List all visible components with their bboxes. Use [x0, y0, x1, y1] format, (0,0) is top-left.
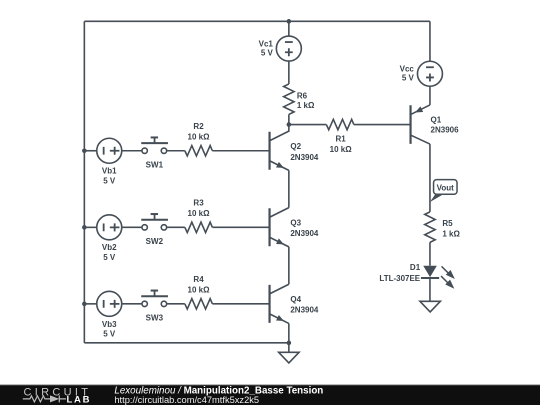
svg-text:2N3904: 2N3904: [290, 229, 319, 238]
svg-text:5 V: 5 V: [103, 330, 116, 339]
wire R6 junction to R1: [289, 124, 327, 126]
transistor Q3 (NPN 2N3904): [270, 208, 319, 247]
transistor Q4 (NPN 2N3904): [270, 284, 319, 323]
svg-text:R3: R3: [193, 198, 204, 207]
voltage source Vb1: [84, 138, 121, 185]
resistor R5: [425, 212, 461, 243]
svg-text:Vb3: Vb3: [102, 320, 117, 329]
node junction left bus row3: [82, 302, 87, 307]
svg-text:2N3906: 2N3906: [431, 126, 460, 135]
wire Q4 emitter to bottom bus: [288, 323, 290, 342]
svg-text:http://circuitlab.com/c47mtfk5: http://circuitlab.com/c47mtfk5xz2k5: [114, 395, 259, 405]
ground under D1: [420, 301, 440, 312]
resistor R1: [326, 119, 353, 154]
LED D1 (LTL-307EE): [379, 263, 454, 301]
svg-text:LTL-307EE: LTL-307EE: [379, 274, 420, 283]
svg-text:Q2: Q2: [290, 142, 301, 151]
svg-text:Vc1: Vc1: [259, 39, 274, 48]
voltage source Vc1: [259, 21, 302, 61]
node junction top (Vc1 tap): [287, 19, 292, 24]
svg-text:R2: R2: [193, 122, 204, 131]
svg-text:1 kΩ: 1 kΩ: [442, 229, 460, 238]
node junction Q4 emitter / ground: [287, 341, 292, 346]
voltage source Vcc: [400, 21, 443, 86]
svg-text:1 kΩ: 1 kΩ: [297, 101, 315, 110]
voltage source Vb2: [84, 215, 121, 262]
transistor Q2 (NPN 2N3904): [270, 125, 319, 171]
svg-text:2N3904: 2N3904: [290, 153, 319, 162]
svg-text:R4: R4: [193, 275, 204, 284]
resistor R2: [185, 122, 270, 156]
svg-text:Q1: Q1: [431, 115, 442, 124]
svg-text:SW1: SW1: [146, 161, 164, 170]
svg-text:5 V: 5 V: [261, 48, 274, 57]
svg-text:R1: R1: [336, 135, 347, 144]
svg-text:LAB: LAB: [67, 394, 92, 405]
svg-text:5 V: 5 V: [103, 177, 116, 186]
wire Q1 collector down to R5: [429, 144, 431, 212]
node junction left bus row2: [82, 225, 87, 230]
resistor R3: [185, 198, 270, 232]
wire Q2 emitter to Q3 collector: [288, 170, 290, 207]
svg-text:Q3: Q3: [290, 218, 301, 227]
svg-text:SW3: SW3: [146, 314, 164, 323]
switch SW1: [122, 137, 185, 169]
svg-text:R5: R5: [442, 219, 453, 228]
node junction left bus row1: [82, 148, 87, 153]
svg-text:10 kΩ: 10 kΩ: [188, 132, 211, 141]
wire R1 to Q1 base: [354, 124, 411, 126]
ground under Q4: [279, 343, 299, 363]
resistor R4: [185, 275, 270, 309]
svg-text:Vcc: Vcc: [400, 64, 415, 73]
svg-text:10 kΩ: 10 kΩ: [330, 145, 353, 154]
footer attribution text: [114, 385, 323, 405]
svg-text:5 V: 5 V: [402, 74, 415, 83]
node junction R6/R1/Q2 collector: [287, 122, 292, 127]
resistor R6: [284, 61, 315, 124]
footer bar: [0, 385, 540, 405]
switch SW2: [122, 214, 185, 246]
svg-text:10 kΩ: 10 kΩ: [188, 209, 211, 218]
wire left bus: [83, 21, 85, 343]
transistor Q1 (PNP 2N3906): [411, 86, 460, 144]
voltage source Vb3: [84, 291, 121, 338]
svg-text:SW2: SW2: [146, 237, 164, 246]
CircuitLab logo: [23, 387, 91, 405]
svg-text:2N3904: 2N3904: [290, 305, 319, 314]
svg-text:D1: D1: [410, 263, 421, 272]
wire Q3 emitter to Q4 collector: [288, 247, 290, 284]
switch SW3: [122, 291, 185, 323]
wire top rail: [84, 20, 430, 22]
node flag Vout: [430, 180, 457, 202]
svg-text:5 V: 5 V: [103, 253, 116, 262]
svg-text:Vb1: Vb1: [102, 167, 117, 176]
svg-text:Vout: Vout: [437, 184, 455, 193]
svg-text:R6: R6: [297, 91, 308, 100]
wire R5 to D1: [429, 242, 431, 265]
svg-text:Vb2: Vb2: [102, 243, 117, 252]
wire bottom bus: [84, 342, 289, 344]
svg-text:Q4: Q4: [290, 295, 301, 304]
svg-text:10 kΩ: 10 kΩ: [188, 285, 211, 294]
